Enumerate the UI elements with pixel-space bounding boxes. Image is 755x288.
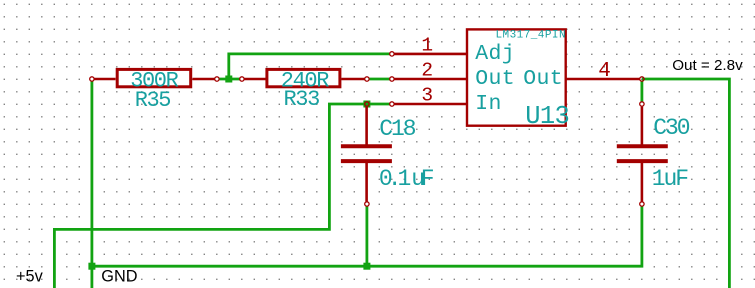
wire C18 bottom pin down to GND rail <box>365 206 368 266</box>
wire net +5v vertical from R35 left pin down to bottom edge <box>91 81 94 288</box>
pin 3 stub In <box>392 103 468 106</box>
pin endpoint circle IC pin1 <box>390 52 394 56</box>
wire segment R33 right pin to IC pin 2 <box>369 78 389 81</box>
resistor R35 body <box>92 69 217 86</box>
svg-text:In: In <box>475 92 501 116</box>
pin 2 stub Out(left) <box>392 78 468 81</box>
pin endpoint circle C30 top <box>640 102 644 106</box>
wire segment R35 right pin to R33 left pin through junction <box>219 78 239 81</box>
wire C18 junction left and down to GND-side rail <box>54 104 367 288</box>
svg-text:4: 4 <box>598 60 611 83</box>
svg-text:U13: U13 <box>525 102 569 131</box>
svg-text:Out: Out <box>475 67 515 91</box>
wire GND rail horizontal <box>92 265 641 268</box>
pin endpoint circle C18 bottom <box>365 202 369 206</box>
pin 4 stub Out(right) <box>565 78 640 81</box>
svg-text:R33: R33 <box>283 87 319 112</box>
svg-text:GND: GND <box>101 268 137 286</box>
svg-text:Out: Out <box>523 67 563 91</box>
svg-text:3: 3 <box>421 84 433 106</box>
capacitor C18 <box>341 107 392 202</box>
pin endpoint circle IC pin2 <box>390 77 394 81</box>
resistor R33 body <box>242 69 367 86</box>
svg-text:0.1uF: 0.1uF <box>379 166 435 192</box>
junction at GND rail / C18 bottom <box>363 263 370 270</box>
junction at C18 top node <box>363 101 370 108</box>
svg-text:LM317_4PIN: LM317_4PIN <box>495 30 566 42</box>
pin endpoint circle R35 left <box>90 77 94 81</box>
svg-text:2: 2 <box>421 59 433 81</box>
wire junction riser to pin 1 <box>229 54 390 79</box>
svg-text:+5v: +5v <box>16 268 44 286</box>
wire IC pin 4 out to right and down edge <box>642 79 730 288</box>
svg-text:1uF: 1uF <box>652 166 688 192</box>
pin endpoint circle R33 right <box>365 77 369 81</box>
svg-text:C18: C18 <box>379 116 415 142</box>
wire C30 bottom to GND rail corner <box>641 206 644 267</box>
pin endpoint circle IC pin3 <box>390 102 394 106</box>
svg-text:R35: R35 <box>135 88 171 113</box>
svg-text:Out = 2.8v: Out = 2.8v <box>672 57 743 74</box>
junction at GND rail / +5v-net crossing x=91.9 <box>88 263 95 270</box>
pin endpoint circle C30 bottom <box>640 202 644 206</box>
pin endpoint circle R35 right <box>215 77 219 81</box>
pin 1 stub Adj <box>392 53 468 56</box>
pin endpoint circle IC pin4 node <box>640 77 644 81</box>
junction at R35/R33/riser node <box>225 76 232 83</box>
pin endpoint circle C18 top (over junction) <box>365 102 369 106</box>
IC regulator U13 LM317_4PIN box <box>392 29 640 125</box>
wire segment C18 junction to IC pin 3 <box>367 103 390 106</box>
svg-text:C30: C30 <box>653 115 689 141</box>
wire IC pin4 node down to C30 top <box>641 81 644 102</box>
svg-text:Adj: Adj <box>475 42 515 66</box>
pin endpoint circle R33 left <box>240 77 244 81</box>
capacitor C30 <box>617 107 668 202</box>
svg-text:1: 1 <box>421 34 433 56</box>
